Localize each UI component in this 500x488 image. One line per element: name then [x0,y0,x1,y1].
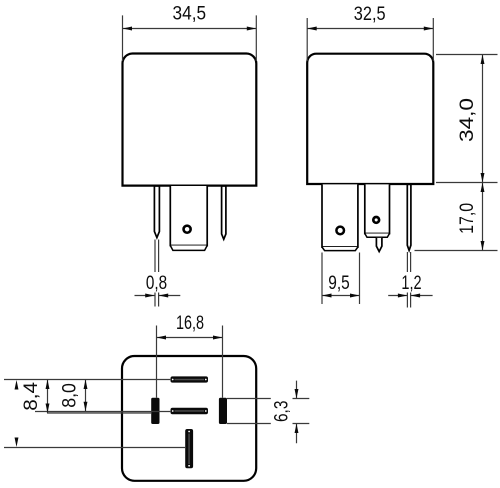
front view: centre 9.5mm blade terminal [170,186,207,250]
svg-text:32,5: 32,5 [354,4,386,25]
front view: relay body [123,54,257,186]
dimension 8,0: dimension line with arrows [84,380,88,412]
front view: hole in centre blade [184,226,191,233]
dimension 6,3: dimension line with outside arrows [295,381,299,444]
dimension 0,8: extension lines from pin edges [155,240,159,307]
svg-text:1,2: 1,2 [401,273,421,294]
dimension 6,3: value label (rotated) [272,401,293,423]
dimension 34,5: dimension line with arrows [123,27,257,31]
overall pitch arrows at left edge [15,380,19,447]
side view: 6.3mm blade terminal with centre pin [365,184,390,251]
dimension 34,0: dimension line with arrows [481,55,485,183]
dimension 8,4: value label (rotated) [21,382,42,411]
dimension 16,8: dimension line with arrows [157,336,223,340]
bottom view: right 6.3mm blade pad [219,398,227,424]
dimension 1,2: extension lines from pin edges [407,252,410,308]
dimension 8,4: dimension line with arrows [46,380,50,414]
dimension 32,5: extension lines [307,18,433,61]
svg-text:34,5: 34,5 [173,4,207,25]
dimension 17,0: extension line at pin tips [415,250,498,252]
bottom view: leader lines to centre pad row [35,412,170,414]
dimension 9,5: value label [328,273,349,294]
bottom view: centre 9.5mm blade pad [171,408,209,415]
dimension 6,3: extension line stubs [293,399,310,424]
front view: left thin pin (0.8 blade edge-on) [154,186,159,238]
svg-text:8,4: 8,4 [21,382,42,411]
svg-text:9,5: 9,5 [328,273,349,294]
dimension 1,2: value label [401,273,421,294]
side view: 9.5mm blade terminal face-on [322,184,358,250]
dimension 16,8: extension lines [157,326,223,398]
bottom view: relay footprint body [122,356,256,481]
svg-text:8,0: 8,0 [60,383,81,408]
dimension 34,5: extension lines [123,15,257,61]
svg-text:0,8: 0,8 [146,273,167,294]
dimension 32,5: value label [354,4,386,25]
dimension 6,3: leader lines from right pad [227,399,271,424]
dimension 9,5: extension lines [322,253,360,305]
dimension 0,8: dimension line with outside arrows [135,294,181,298]
svg-text:34,0: 34,0 [457,98,478,142]
svg-text:17,0: 17,0 [457,203,478,234]
side view: hole in 9.5mm blade [336,227,344,235]
bottom view: left 6.3mm blade pad [151,398,159,424]
svg-text:6,3: 6,3 [272,401,293,423]
dimension 16,8: value label [176,313,204,334]
dimension 1,2: dimension line with outside arrows [388,294,432,298]
bottom view: leader line to top pad [4,379,170,381]
dimension 17,0: dimension line with arrows [481,183,485,251]
svg-text:16,8: 16,8 [176,313,204,334]
dimension 34,0: extension lines [436,55,498,183]
dimension 8,0: value label (rotated) [60,383,81,408]
dimension 9,5: dimension line with arrows [322,294,360,298]
bottom view: leader line to bottom pad [4,447,185,449]
bottom view: top 9.5mm blade pad [171,376,209,382]
side view: right thin pin [407,184,411,250]
bottom view: bottom 9.5mm blade pad [185,429,193,468]
side view: relay body [307,54,433,184]
front view: right thin pin [222,186,226,239]
dimension 34,0: value label (rotated) [457,98,478,142]
dimension 32,5: dimension line with arrows [307,27,433,31]
dimension 34,5: value label [173,4,207,25]
side view: hole in 6.3mm blade [373,217,379,223]
dimension 17,0: value label (rotated) [457,203,478,234]
dimension 0,8: value label [146,273,167,294]
